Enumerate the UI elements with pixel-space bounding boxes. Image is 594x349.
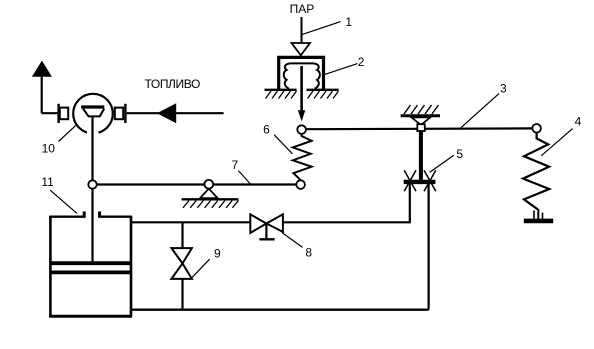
node A (stem / lever joint) — [297, 125, 306, 134]
valve U2 body bracket — [279, 57, 324, 89]
pivot pin square — [417, 124, 425, 131]
label 9 — [214, 246, 221, 260]
wire steam inlet line — [301, 17, 303, 42]
valve U2 inner plug profile — [284, 63, 320, 88]
dashpot U5 seal crosses — [404, 170, 436, 191]
node B (spring / lever joint) — [296, 180, 305, 189]
svg-text:ПАР: ПАР — [290, 2, 315, 16]
svg-text:6: 6 — [263, 123, 270, 137]
wire bottom pipe — [132, 309, 429, 311]
label 6 — [263, 123, 270, 137]
wire below valve 9 — [181, 279, 183, 310]
right flange of U10 — [115, 104, 126, 123]
svg-text:8: 8 — [305, 246, 312, 260]
node C (lever / servo rod joint) — [88, 180, 96, 188]
ground under fulcrum — [182, 199, 239, 208]
label 11 — [41, 175, 54, 189]
spring C6 — [293, 134, 312, 180]
leader 3 — [461, 94, 499, 128]
leader 5 — [430, 155, 454, 172]
label 2 — [358, 55, 365, 69]
left flange of U10 — [59, 104, 69, 123]
label 5 — [456, 147, 463, 161]
label ТОПЛИВО (fuel) — [145, 77, 200, 91]
svg-text:4: 4 — [575, 115, 582, 129]
regulator U10 stem down to node C — [91, 117, 93, 180]
svg-text:2: 2 — [358, 55, 365, 69]
svg-text:3: 3 — [500, 81, 507, 95]
leader 4 — [541, 129, 572, 156]
leader 7 — [238, 171, 250, 184]
servo cylinder U11 — [49, 211, 132, 317]
drain symbol (solid triangle) — [32, 61, 52, 77]
label 1 — [345, 15, 352, 29]
wire upper pipe (cylinder to valve 8) — [132, 221, 250, 223]
leader 9 — [192, 259, 210, 277]
dashpot U5 rod — [419, 131, 423, 180]
wire lever 7 — [97, 183, 297, 185]
ground left of valve U2 — [265, 90, 297, 99]
piston of U11 — [51, 263, 131, 272]
leader 11 — [50, 190, 77, 213]
leader 6 — [274, 135, 292, 154]
ceiling mount of pivot 3 — [401, 105, 440, 116]
regulator U10 nozzle cup — [81, 107, 104, 116]
svg-text:11: 11 — [41, 175, 54, 189]
wire upper pipe (valve 8 to dashpot) — [283, 221, 411, 223]
valve V9 (shut-off) — [171, 248, 192, 279]
spring C4 adjuster — [534, 209, 543, 219]
node D (lever / spring 4 joint) — [532, 124, 541, 133]
wire left pipe of U10 — [42, 112, 58, 114]
stem arrowhead (solid, down) — [298, 110, 305, 121]
leader 10 — [59, 126, 76, 142]
svg-text:9: 9 — [214, 246, 221, 260]
valve V8 (throttle) — [250, 214, 283, 239]
hanger triangle of pivot 3 — [411, 117, 430, 125]
steam flow arrow (hollow, down) — [292, 43, 311, 55]
fulcrum of lever 7 — [200, 180, 218, 198]
svg-text:5: 5 — [456, 147, 463, 161]
svg-text:ТОПЛИВО: ТОПЛИВО — [145, 77, 200, 91]
label 7 — [231, 158, 238, 172]
spring C4 — [523, 133, 549, 210]
ground right of valve U2 — [307, 90, 339, 99]
dashpot U5 piston bar — [404, 180, 436, 184]
wire dashpot left leg — [409, 183, 411, 222]
wire fuel supply line — [127, 112, 224, 114]
svg-text:1: 1 — [345, 15, 352, 29]
leader 2 — [323, 64, 358, 76]
fuel flow arrow (solid, left) — [157, 103, 176, 123]
wire riser to drain symbol — [41, 77, 43, 114]
wire lever 3 — [306, 127, 532, 130]
regulator U10 circle — [73, 94, 113, 138]
valve U2 stem — [300, 66, 303, 111]
leader 8 — [282, 233, 303, 248]
label ПАР (steam inlet) — [290, 2, 315, 16]
svg-text:10: 10 — [42, 141, 56, 155]
leader 1 — [302, 22, 341, 35]
label 8 — [305, 246, 312, 260]
svg-text:7: 7 — [231, 158, 238, 172]
wire dashpot right leg — [428, 184, 430, 310]
spring C4 base plate — [524, 219, 553, 224]
label 10 — [42, 141, 56, 155]
wire branch to valve 9 — [181, 222, 183, 248]
label 3 — [500, 81, 507, 95]
piston rod of U11 — [91, 189, 93, 262]
label 4 — [575, 115, 582, 129]
